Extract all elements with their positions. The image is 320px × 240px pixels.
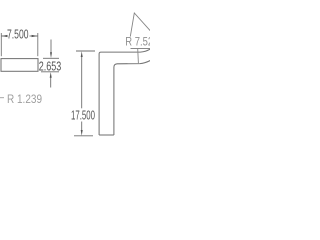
dimension 17.500 top tick (76, 50, 95, 52)
dimension 17.500 bottom tick (74, 135, 93, 137)
side view: inner contour (114, 60, 151, 135)
svg-text:7.500: 7.500 (7, 27, 29, 42)
2.653 lower arrow line (50, 78, 52, 88)
dimension 2.653 top tick (43, 57, 59, 59)
CAD drawing: bent sheet-metal part, two views with dimensions (0, 0, 150, 150)
dimension 7.500 dim line left segment (1, 35, 7, 37)
arrowhead right (32, 35, 38, 37)
radius leader landing under text (131, 48, 151, 50)
svg-text:2.653: 2.653 (39, 59, 62, 74)
radius leader R 1.239 dash (0, 97, 4, 99)
top view rectangle (1, 59, 38, 72)
radius leader R 7.520 : V lines (130, 13, 151, 37)
2.653 upper arrow line (50, 40, 52, 53)
dimension 7.500 extension line right (37, 33, 39, 56)
side view: bottom edge (99, 134, 114, 136)
radius leader vertical to inner arc (137, 49, 140, 64)
svg-text:R 7.520: R 7.520 (125, 36, 150, 48)
dimension 7.500 dim line right segment (30, 35, 38, 37)
svg-text:17.500: 17.500 (71, 107, 95, 122)
arrowhead left (1, 35, 7, 37)
side view: outer contour of bent part (99, 49, 151, 135)
17.500 lower dim line with down arrow (81, 122, 83, 131)
svg-text:R 1.239: R 1.239 (7, 92, 42, 106)
dimension 7.500 extension line left (0, 33, 2, 56)
dimension 2.653 bottom tick (41, 71, 59, 73)
17.500 upper dim line with up arrow (81, 57, 83, 109)
